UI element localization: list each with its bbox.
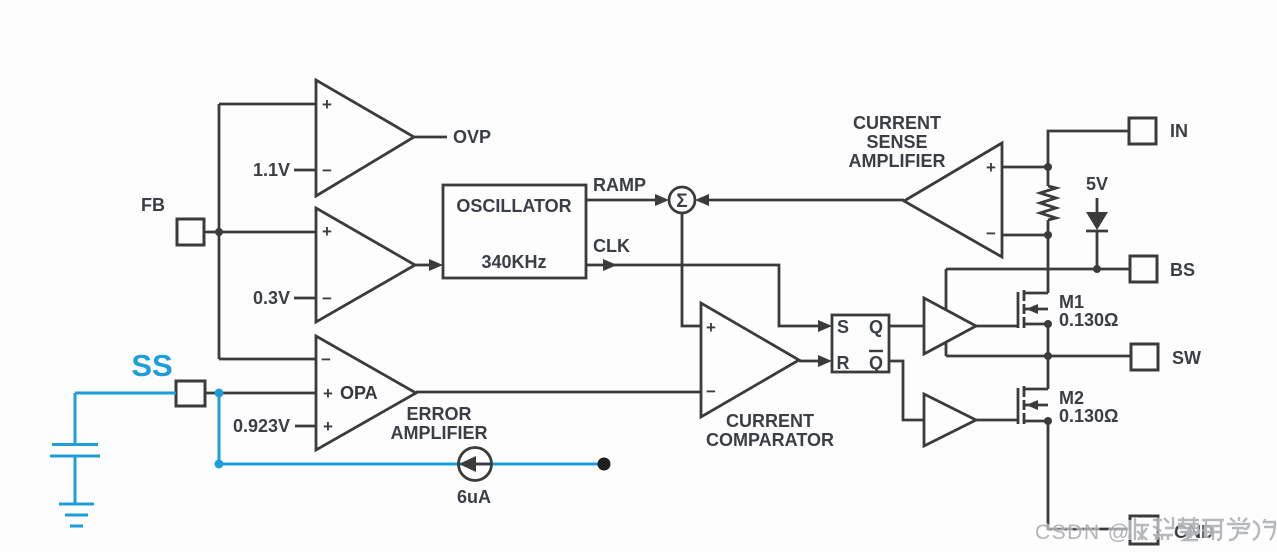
node SS junction blue	[215, 389, 224, 398]
wire 1.1V stub	[294, 169, 316, 172]
wire CLK	[586, 265, 820, 326]
wire SS to 6uA source	[219, 395, 602, 464]
svg-text:SS: SS	[131, 348, 172, 383]
wire current sense amp output to sigma	[704, 199, 904, 202]
node end dot	[598, 458, 611, 471]
svg-text:−: −	[322, 289, 332, 308]
svg-text:OSCILLATOR: OSCILLATOR	[456, 196, 571, 216]
node M1 source	[1044, 320, 1052, 328]
node rail CSA+	[1044, 163, 1052, 171]
node M2 source	[1044, 417, 1052, 425]
node SW junction	[1044, 352, 1052, 360]
wire Q to driver1	[889, 325, 924, 328]
svg-text:OVP: OVP	[453, 127, 491, 147]
wire SS blue	[75, 392, 176, 395]
svg-text:+: +	[323, 384, 333, 403]
svg-text:CURRENT: CURRENT	[726, 411, 814, 431]
wire M1 source to SW	[1047, 324, 1050, 356]
resistor R1	[1040, 186, 1056, 220]
wire 0.923V stub	[295, 425, 316, 428]
svg-text:CLK: CLK	[593, 236, 630, 256]
svg-text:CSDN @: CSDN @	[1035, 521, 1131, 544]
arrow into R input	[818, 355, 832, 367]
svg-text:ERROR: ERROR	[406, 404, 471, 424]
svg-text:OPA: OPA	[340, 383, 378, 403]
watermark halo	[1130, 517, 1275, 540]
svg-text:+: +	[986, 158, 996, 177]
svg-text:BS: BS	[1170, 260, 1195, 280]
svg-text:COMPARATOR: COMPARATOR	[706, 430, 834, 450]
svg-text:AMPLIFIER: AMPLIFIER	[391, 423, 488, 443]
driver buffer A2	[924, 394, 976, 446]
capacitor C1	[50, 393, 100, 504]
arrow into S input	[818, 320, 832, 332]
summing node sigma	[669, 187, 695, 213]
svg-text:0.3V: 0.3V	[253, 288, 290, 308]
svg-text:IN: IN	[1170, 121, 1188, 141]
wire driver2 to M2 gate	[976, 419, 1018, 422]
svg-text:M1: M1	[1059, 292, 1084, 312]
ground	[59, 504, 94, 526]
svg-text:6uA: 6uA	[457, 487, 491, 507]
svg-text:+: +	[322, 95, 332, 114]
wire SW line	[946, 355, 1131, 358]
SR latch U4	[832, 315, 889, 372]
svg-text:340KHz: 340KHz	[481, 252, 546, 272]
transistor M1	[1018, 290, 1048, 328]
wire SW to M2 drain	[1047, 356, 1050, 389]
wire sigma to current comparator +	[682, 214, 701, 326]
wire rail resistor to M1 drain	[1047, 220, 1050, 293]
wire M2 source to GND	[1048, 421, 1130, 529]
wire OVP output	[414, 136, 447, 139]
label CURRENT SENSE AMPLIFIER	[849, 113, 946, 171]
pin box GND	[1130, 516, 1158, 544]
arrow into oscillator	[429, 259, 443, 271]
svg-text:1.1V: 1.1V	[253, 160, 290, 180]
wire CSA - input	[1002, 234, 1048, 237]
svg-text:0.130Ω: 0.130Ω	[1059, 406, 1118, 426]
wire error amp output to comparator -	[416, 391, 701, 394]
svg-text:CURRENT: CURRENT	[853, 113, 941, 133]
svg-text:Q: Q	[869, 317, 883, 337]
wire comparator U1 + input	[219, 103, 316, 106]
wire IN rail top	[1048, 131, 1129, 186]
current source I1 6uA	[459, 448, 492, 481]
svg-text:AMPLIFIER: AMPLIFIER	[849, 151, 946, 171]
current sense amplifier U5	[904, 143, 1002, 257]
wire CSA + input	[1002, 166, 1048, 169]
svg-text:S: S	[837, 317, 849, 337]
wire BS line	[946, 268, 1130, 271]
wire 0.3V stub	[294, 297, 316, 300]
svg-text:0.130Ω: 0.130Ω	[1059, 310, 1118, 330]
wire FB bus to OPA -	[219, 358, 316, 361]
svg-text:R: R	[837, 353, 850, 373]
label Qbar	[869, 351, 883, 373]
svg-text:Σ: Σ	[676, 191, 687, 212]
wire SS pin to OPA +	[205, 392, 316, 395]
svg-text:−: −	[322, 161, 332, 180]
node blue corner	[215, 460, 224, 469]
transistor M2	[1018, 386, 1048, 424]
svg-text:SW: SW	[1172, 348, 1201, 368]
arrow RAMP into sigma	[655, 194, 669, 206]
pin box SS	[176, 381, 205, 406]
comparator U1 (OVP)	[316, 80, 414, 196]
svg-text:5V: 5V	[1086, 174, 1108, 194]
label ERROR AMPLIFIER	[391, 404, 488, 443]
driver buffer A1	[924, 298, 976, 354]
label CURRENT COMPARATOR	[706, 411, 834, 450]
svg-text:FB: FB	[141, 195, 165, 215]
svg-text:+: +	[322, 222, 332, 241]
pin box BS	[1130, 256, 1157, 282]
current comparator U3	[701, 303, 799, 417]
arrow CSA into sigma	[695, 194, 709, 206]
svg-text:−: −	[321, 350, 331, 369]
arrow CLK	[603, 259, 617, 271]
watermark CJK strokes	[1130, 517, 1275, 540]
svg-text:Q: Q	[869, 353, 883, 373]
svg-text:0.923V: 0.923V	[233, 416, 290, 436]
wire BS vertical to SW	[945, 269, 948, 356]
pin box IN	[1129, 118, 1156, 144]
wire driver1 to M1 gate	[976, 325, 1018, 328]
svg-text:SENSE: SENSE	[866, 132, 927, 152]
svg-text:+: +	[706, 318, 716, 337]
watermark CSDN	[1035, 521, 1131, 544]
svg-text:−: −	[706, 382, 716, 401]
wire comparator output to R	[799, 360, 820, 363]
wire U2 output to oscillator	[415, 264, 431, 267]
svg-text:RAMP: RAMP	[593, 175, 646, 195]
op-amp OPA error amplifier	[316, 336, 416, 450]
node FB junction	[215, 228, 223, 236]
wire Qbar to driver2	[889, 361, 924, 420]
wire FB pin to comparator U2	[204, 231, 316, 234]
svg-text:−: −	[986, 224, 996, 243]
svg-text:M2: M2	[1059, 388, 1084, 408]
wire FB bus vertical	[218, 104, 221, 359]
wire RAMP	[586, 199, 660, 202]
svg-text:+: +	[323, 417, 333, 436]
blue soft-start net	[50, 389, 602, 527]
node rail CSA-	[1044, 231, 1052, 239]
diode D1 5V	[1086, 198, 1108, 269]
oscillator box	[443, 185, 586, 278]
pin box FB	[177, 219, 204, 245]
comparator U2	[316, 208, 415, 322]
pin box SW	[1131, 344, 1158, 370]
node diode-BS junction	[1093, 265, 1101, 273]
